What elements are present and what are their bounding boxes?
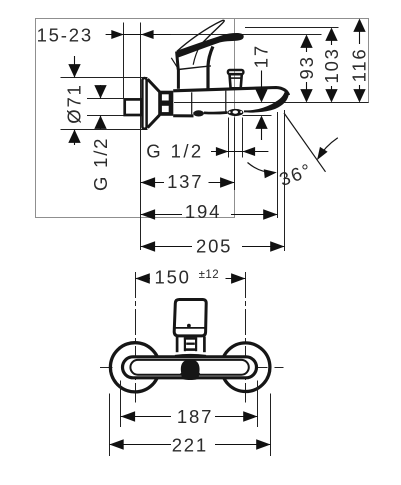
body top edge and spout tip — [173, 88, 288, 96]
body pill inner — [130, 360, 248, 375]
dimension 137 — [141, 171, 235, 192]
dimension 150±12 — [135, 266, 245, 287]
center extension line through aerator — [234, 118, 236, 191]
dimension G1/2 left — [90, 85, 111, 191]
diverter knob side view — [228, 70, 244, 88]
svg-text:205: 205 — [196, 236, 232, 257]
spout tip face (36° cut) — [244, 91, 289, 112]
dimension Ø71 extension lines — [61, 77, 148, 79]
handle skirt posts — [177, 337, 204, 353]
union nut — [159, 91, 173, 116]
36 degree face line — [284, 113, 326, 172]
dimension G1/2 bottom — [146, 140, 268, 161]
reference line 103 — [245, 27, 339, 29]
pill top sag under stem — [175, 355, 206, 356]
dimension 116 — [349, 19, 370, 103]
svg-text:±12: ±12 — [199, 269, 220, 281]
svg-text:116: 116 — [349, 47, 370, 82]
lever handle base — [171, 47, 213, 89]
svg-text:137: 137 — [167, 171, 203, 192]
escutcheon circle right — [221, 343, 270, 392]
dimension 17 — [251, 44, 272, 140]
dimension 205 — [141, 236, 285, 257]
svg-text:17: 17 — [251, 44, 272, 68]
dimension 103 — [321, 28, 342, 103]
svg-text:15-23: 15-23 — [37, 25, 93, 46]
36 degree leader — [248, 163, 273, 173]
svg-text:221: 221 — [172, 434, 208, 455]
reference axis line y=102.9 — [174, 102, 369, 104]
frame box left (side view) — [36, 19, 235, 218]
svg-text:Ø71: Ø71 — [63, 83, 84, 123]
svg-text:194: 194 — [185, 201, 221, 222]
aerator — [227, 109, 243, 116]
36 degree arc right — [318, 138, 338, 159]
body seam lines — [191, 92, 193, 114]
supply pipe stub — [125, 99, 142, 115]
spout underside — [204, 111, 227, 114]
svg-text:93: 93 — [296, 55, 317, 79]
svg-text:G 1/2: G 1/2 — [90, 137, 111, 191]
dimension 194 — [141, 201, 278, 222]
body pill outer — [123, 357, 257, 378]
escutcheon cone — [148, 79, 160, 127]
reference line 93 — [166, 34, 322, 36]
dimension 93 — [296, 35, 317, 103]
svg-text:187: 187 — [177, 406, 213, 427]
svg-text:G 1/2: G 1/2 — [146, 140, 203, 161]
dimension 187 extension lines — [120, 381, 122, 428]
dimension 221 extension lines — [109, 394, 111, 457]
dimension 205 extension line — [284, 110, 286, 251]
dimension Ø71 — [63, 56, 84, 145]
lever arm (rest position) — [176, 33, 243, 58]
lever arm raised (phantom outline) — [177, 20, 224, 51]
dimension 221 — [109, 434, 270, 455]
dimension 150±12 extension / centerlines — [135, 272, 137, 403]
bottom outlet bump — [193, 110, 204, 116]
dimension G1/2 bottom extension lines — [228, 118, 230, 158]
frame box right (side view heights) — [235, 19, 369, 103]
horizontal centerline front view — [100, 367, 284, 369]
dimension G1/2 left extension lines — [87, 98, 124, 100]
body bottom edge — [173, 114, 193, 117]
handle stem ribs — [184, 338, 197, 352]
svg-text:150: 150 — [155, 266, 191, 287]
wall escutcheon bar — [142, 78, 146, 129]
escutcheon circle left — [110, 343, 159, 392]
dimension 15-23 — [37, 25, 171, 46]
aerator outlet plane line — [243, 115, 272, 117]
handle front view — [174, 300, 206, 336]
diverter knob front view — [180, 359, 200, 380]
wall datum extension line — [140, 23, 142, 251]
svg-text:103: 103 — [321, 47, 342, 83]
dimension 194 extension line — [277, 112, 279, 218]
pipe stub extension line — [123, 23, 125, 99]
handle fold line — [193, 45, 200, 65]
dimension 187 — [121, 406, 258, 427]
